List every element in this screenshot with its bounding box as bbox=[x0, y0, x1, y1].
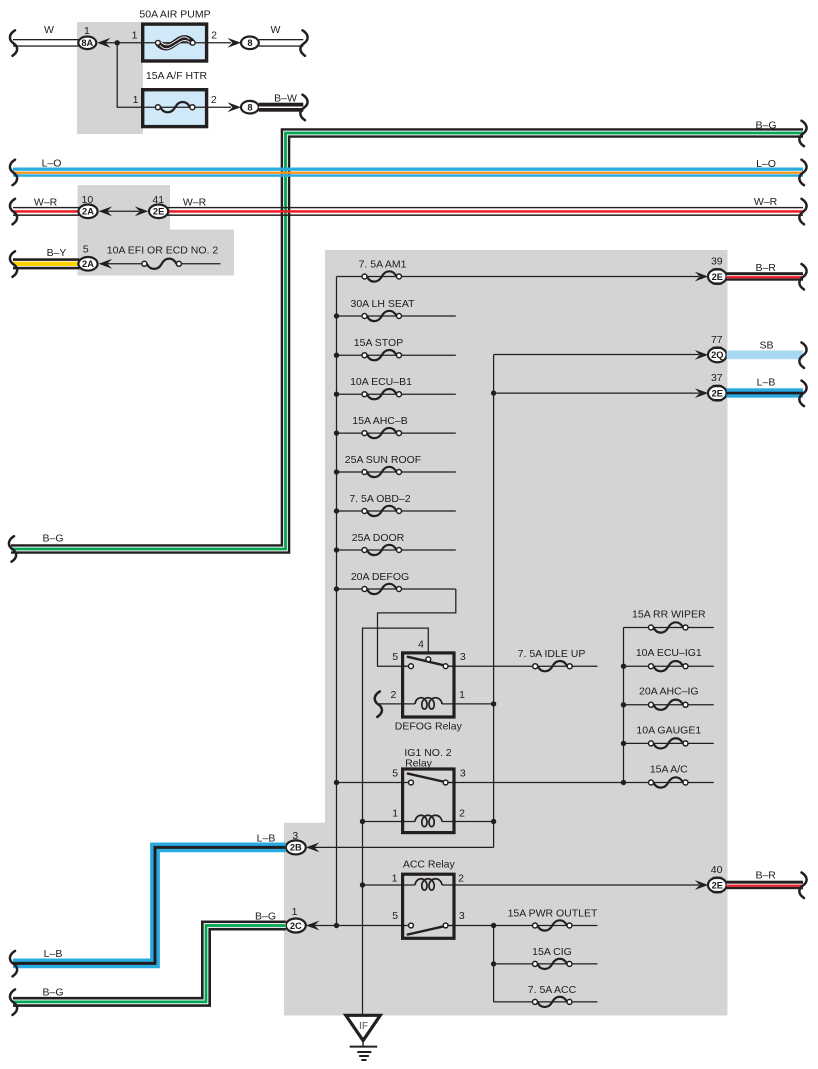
wire 8A to fuse box bbox=[105, 42, 141, 44]
node dot DEFOG pin1 to bus bbox=[491, 701, 496, 706]
svg-text:2E: 2E bbox=[153, 207, 164, 217]
svg-text:1: 1 bbox=[133, 94, 139, 106]
svg-text:2: 2 bbox=[458, 872, 464, 884]
connector 2C pin 1 bbox=[286, 919, 306, 933]
svg-text:DEFOG Relay: DEFOG Relay bbox=[395, 721, 463, 733]
brace W left bbox=[10, 30, 17, 56]
brace L-O left bbox=[10, 160, 17, 186]
node dot IG1 pin1 to ground run bbox=[360, 819, 365, 824]
brace W-R left bbox=[10, 199, 17, 225]
svg-text:10A EFI OR ECD NO. 2: 10A EFI OR ECD NO. 2 bbox=[107, 244, 219, 256]
fuse row 15A STOP bbox=[334, 350, 456, 360]
connector 2A (B-Y) bbox=[78, 257, 97, 271]
svg-text:2Q: 2Q bbox=[711, 350, 723, 360]
fuse 15A A/C on IG1 pin3 line bbox=[621, 777, 688, 787]
node junction dot feed bbox=[115, 40, 120, 45]
fuse row 20A DEFOG bbox=[334, 584, 456, 594]
svg-text:20A AHC–IG: 20A AHC–IG bbox=[639, 686, 699, 698]
svg-text:2A: 2A bbox=[82, 207, 94, 217]
fusible link 50A element bbox=[145, 37, 206, 49]
bus left vertical (AM1 feed bus) bbox=[336, 277, 338, 926]
brace L-B (37) right bbox=[799, 381, 806, 407]
svg-text:L–B: L–B bbox=[757, 377, 776, 389]
wire fuse 15A to connector 8 bbox=[207, 106, 231, 108]
svg-text:SB: SB bbox=[759, 339, 773, 351]
fuse row 7.5A OBD-2 bbox=[334, 506, 456, 516]
svg-text:ACC Relay: ACC Relay bbox=[403, 859, 456, 871]
IG1 relay switch bbox=[408, 774, 456, 785]
svg-text:2E: 2E bbox=[712, 388, 723, 398]
svg-text:W: W bbox=[271, 24, 281, 36]
svg-text:L–O: L–O bbox=[42, 158, 62, 170]
fuse row 15A CIG bbox=[491, 959, 598, 969]
svg-text:B–G: B–G bbox=[42, 533, 63, 545]
fuse row 7.5A ACC bbox=[494, 997, 598, 1007]
fuse 15A PWR OUTLET bbox=[533, 920, 573, 930]
svg-text:W: W bbox=[44, 24, 54, 36]
svg-text:7. 5A AM1: 7. 5A AM1 bbox=[359, 258, 407, 270]
svg-text:15A A/F HTR: 15A A/F HTR bbox=[146, 70, 208, 82]
svg-text:5: 5 bbox=[83, 244, 89, 256]
svg-text:25A SUN ROOF: 25A SUN ROOF bbox=[345, 454, 421, 466]
wire IG1 pin 3 to 15A A/C fuse bbox=[448, 782, 714, 784]
arrow at 8A bbox=[97, 38, 111, 48]
bus vertical (2Q feed) bbox=[493, 355, 495, 848]
svg-text:15A AHC–B: 15A AHC–B bbox=[352, 415, 407, 427]
wire B-R (40) bbox=[727, 881, 803, 890]
connector 8 (air pump) bbox=[241, 37, 259, 50]
fuse 50A AIR PUMP box bbox=[143, 24, 207, 61]
svg-text:5: 5 bbox=[392, 910, 398, 922]
svg-text:15A CIG: 15A CIG bbox=[532, 946, 572, 958]
bus vertical ACC branch bbox=[493, 926, 495, 1002]
wire to 2Q connector bbox=[494, 354, 699, 356]
svg-text:B–G: B–G bbox=[755, 119, 776, 131]
svg-text:2: 2 bbox=[390, 689, 396, 701]
arrow into connector 8 bbox=[228, 38, 242, 48]
svg-text:25A DOOR: 25A DOOR bbox=[352, 532, 405, 544]
wire B-Y left segment bbox=[13, 258, 80, 269]
fuse 15A element bbox=[145, 102, 206, 112]
relay ACC box bbox=[403, 874, 454, 938]
brace B-R (39) right bbox=[799, 264, 806, 290]
svg-text:2A: 2A bbox=[82, 259, 94, 269]
svg-text:10: 10 bbox=[82, 194, 94, 206]
svg-text:10A ECU–IG1: 10A ECU–IG1 bbox=[636, 647, 702, 659]
fuse row 25A SUN ROOF bbox=[334, 467, 456, 477]
fuse 7.5A IDLE UP bbox=[533, 661, 573, 671]
relay DEFOG box bbox=[403, 653, 454, 717]
arrow into 2Q bbox=[695, 350, 709, 360]
fuse row 30A LH SEAT bbox=[334, 311, 456, 321]
connector 8 (A/F HTR) bbox=[241, 101, 259, 114]
svg-text:30A LH SEAT: 30A LH SEAT bbox=[350, 298, 415, 310]
arrow at 2B bbox=[306, 843, 320, 853]
wire L-B (37) bbox=[727, 388, 803, 397]
wire B-G from 2C to bottom left bbox=[13, 926, 286, 1002]
svg-text:2E: 2E bbox=[712, 272, 723, 282]
brace L-O right bbox=[799, 160, 806, 186]
wire W-R left segment bbox=[13, 207, 80, 216]
svg-text:1: 1 bbox=[84, 25, 90, 37]
svg-text:B–R: B–R bbox=[755, 262, 776, 274]
fuse row 10A GAUGE1 bbox=[621, 738, 714, 748]
svg-text:4: 4 bbox=[418, 638, 424, 650]
svg-text:8: 8 bbox=[247, 102, 252, 112]
svg-text:15A A/C: 15A A/C bbox=[650, 763, 688, 775]
svg-text:77: 77 bbox=[711, 334, 723, 346]
svg-text:B–G: B–G bbox=[42, 987, 63, 999]
arrow at 2C bbox=[306, 921, 320, 931]
svg-text:7. 5A OBD–2: 7. 5A OBD–2 bbox=[349, 493, 410, 505]
svg-text:1: 1 bbox=[392, 807, 398, 819]
connector 2A (W-R) bbox=[78, 205, 97, 219]
arrow into connector 8 (A/F) bbox=[228, 102, 242, 112]
wire DEFOG pin 3 to IDLE UP fuse bbox=[448, 665, 598, 667]
svg-text:L–O: L–O bbox=[756, 158, 776, 170]
shaded block: W-R / B-Y connector area bbox=[78, 185, 235, 276]
svg-text:40: 40 bbox=[711, 864, 723, 876]
svg-text:1: 1 bbox=[292, 906, 298, 918]
fuse row 10A ECU-IG1 bbox=[621, 661, 714, 671]
arrow into 2E-37 bbox=[695, 388, 709, 398]
DEFOG relay coil and pin2/pin1 wires bbox=[379, 698, 492, 709]
relay IG1 box bbox=[403, 769, 454, 833]
node dot IG1 pin2 to bus bbox=[491, 819, 496, 824]
connector 2E pin 40 bbox=[708, 877, 727, 893]
wire bus to IG1 pin 5 bbox=[337, 782, 412, 784]
svg-text:15A RR WIPER: 15A RR WIPER bbox=[632, 608, 706, 620]
svg-text:IF: IF bbox=[359, 1021, 368, 1032]
IG1 relay coil and pin1/pin2 wires bbox=[363, 815, 493, 826]
wire B-R (39) bbox=[727, 272, 803, 281]
node dot bus IG1 pin5 bbox=[334, 780, 339, 785]
svg-text:2B: 2B bbox=[290, 843, 302, 853]
wire B-W right of connector 8 bbox=[259, 103, 304, 112]
svg-text:3: 3 bbox=[292, 830, 298, 842]
DEFOG relay switch bbox=[401, 657, 456, 669]
wire DEFOG relay pin 4 to ground run bbox=[363, 628, 429, 1016]
connector 2E pin 37 bbox=[708, 385, 727, 401]
wire B-G main (left edge to vertical riser to top right edge) bbox=[11, 133, 803, 549]
svg-text:W–R: W–R bbox=[183, 196, 207, 208]
svg-text:2C: 2C bbox=[290, 921, 302, 931]
svg-text:20A DEFOG: 20A DEFOG bbox=[351, 571, 409, 583]
fuse 15A A/F HTR box bbox=[143, 90, 207, 127]
svg-text:39: 39 bbox=[711, 256, 723, 268]
node dot 37 branch bbox=[491, 390, 496, 395]
wire to 2E-37 connector bbox=[494, 392, 699, 394]
svg-text:10A GAUGE1: 10A GAUGE1 bbox=[636, 724, 701, 736]
svg-text:2: 2 bbox=[211, 30, 217, 42]
svg-text:B–G: B–G bbox=[255, 911, 276, 923]
fuse row 25A DOOR bbox=[334, 545, 456, 555]
svg-text:8A: 8A bbox=[81, 38, 93, 48]
svg-text:L–B: L–B bbox=[257, 832, 276, 844]
brace SB right bbox=[799, 342, 806, 368]
fuse row 20A AHC-IG bbox=[621, 700, 714, 710]
node dot bus end at 2C line bbox=[334, 923, 339, 928]
brace at DEFOG relay pin 2 bbox=[375, 691, 382, 717]
svg-text:7. 5A IDLE UP: 7. 5A IDLE UP bbox=[518, 648, 586, 660]
svg-text:W–R: W–R bbox=[34, 196, 58, 208]
svg-text:1: 1 bbox=[459, 689, 465, 701]
svg-text:2: 2 bbox=[459, 807, 465, 819]
connector 8A bbox=[78, 37, 96, 50]
arrow into 2E-39 bbox=[695, 272, 709, 282]
shaded block: main fuse/relay box bbox=[284, 250, 728, 1016]
svg-text:1: 1 bbox=[392, 872, 398, 884]
wire L-B from 2B to bottom left bbox=[13, 847, 286, 963]
svg-text:3: 3 bbox=[459, 910, 465, 922]
svg-text:B–W: B–W bbox=[274, 92, 297, 104]
brace B-G bottom left bbox=[10, 989, 17, 1015]
arrow into 2E-40 bbox=[695, 880, 709, 890]
shaded block: top-left junction box area bbox=[77, 22, 143, 134]
fuse row 10A ECU-B1 bbox=[334, 389, 456, 399]
ACC relay coil and pin1/pin2 wires bbox=[363, 879, 700, 890]
node dot ACC pin3 branch bbox=[491, 923, 496, 928]
wire W right of connector 8 bbox=[259, 39, 304, 47]
fuse row 7.5A AM1 line to connector 2E-39 bbox=[337, 276, 700, 278]
brace B-G right end bbox=[799, 121, 806, 147]
svg-text:2E: 2E bbox=[712, 880, 723, 890]
ground IF bbox=[346, 1015, 381, 1060]
svg-text:37: 37 bbox=[711, 372, 723, 384]
fuse row 15A RR WIPER bbox=[624, 622, 714, 632]
connector 2B pin 3 bbox=[286, 840, 306, 854]
fuse 10A EFI OR ECD NO. 2 bbox=[142, 259, 221, 269]
connector 2E pin 39 bbox=[708, 268, 727, 284]
svg-text:8: 8 bbox=[247, 38, 252, 48]
svg-text:15A PWR OUTLET: 15A PWR OUTLET bbox=[508, 908, 598, 920]
svg-text:W–R: W–R bbox=[754, 196, 778, 208]
svg-text:50A AIR PUMP: 50A AIR PUMP bbox=[139, 9, 210, 21]
bus right fuse column bbox=[623, 628, 625, 783]
wire ACC pin 3 to PWR OUTLET fuse bbox=[448, 925, 598, 927]
wire 2C line to ACC pin 5 bbox=[314, 925, 411, 927]
svg-text:3: 3 bbox=[460, 768, 466, 780]
svg-text:3: 3 bbox=[460, 651, 466, 663]
arrow at 2A (B-Y) bbox=[99, 259, 113, 269]
wire SB bbox=[727, 351, 803, 360]
arrow into 2E (W-R) bbox=[135, 206, 149, 216]
brace L-B bottom left bbox=[10, 951, 17, 977]
svg-text:2: 2 bbox=[211, 94, 217, 106]
wire W left of connector 8A bbox=[13, 39, 79, 47]
wire L-O (full width) bbox=[13, 168, 803, 177]
wire 2A to EFI fuse bbox=[107, 263, 142, 265]
svg-text:10A ECU–B1: 10A ECU–B1 bbox=[350, 376, 412, 388]
svg-text:5: 5 bbox=[392, 768, 398, 780]
wire DEFOG fuse to DEFOG relay pin 5 bbox=[378, 589, 456, 666]
brace B-G left end bbox=[9, 536, 16, 562]
svg-text:B–R: B–R bbox=[755, 870, 776, 882]
fuse 7.5A AM1 bbox=[362, 271, 402, 281]
svg-text:1: 1 bbox=[132, 30, 138, 42]
wire fuse 50A to connector 8 bbox=[207, 42, 231, 44]
connector 2Q pin 77 bbox=[708, 347, 727, 363]
connector 2E (W-R) bbox=[149, 205, 168, 219]
fuse row 15A AHC-B bbox=[334, 428, 456, 438]
svg-text:5: 5 bbox=[392, 651, 398, 663]
svg-text:L–B: L–B bbox=[44, 948, 63, 960]
node dot ACC pin1 to ground run bbox=[360, 882, 365, 887]
brace B-Y left bbox=[10, 251, 17, 277]
brace B-R (40) right bbox=[799, 873, 806, 899]
wire junction down to A/F HTR fuse bbox=[117, 43, 141, 107]
svg-text:7. 5A ACC: 7. 5A ACC bbox=[528, 984, 577, 996]
brace W right bbox=[300, 30, 307, 56]
svg-text:41: 41 bbox=[152, 194, 164, 206]
wire 2A to 2E bbox=[107, 210, 139, 212]
brace W-R right bbox=[799, 199, 806, 225]
svg-text:B–Y: B–Y bbox=[47, 247, 67, 259]
svg-text:15A STOP: 15A STOP bbox=[354, 337, 403, 349]
wire 2B line to bus bbox=[314, 846, 494, 848]
wire W-R right segment bbox=[168, 207, 804, 216]
arrow at 2A (W-R) bbox=[99, 206, 113, 216]
brace B-W right bbox=[300, 95, 307, 121]
ACC relay switch bbox=[408, 923, 456, 934]
